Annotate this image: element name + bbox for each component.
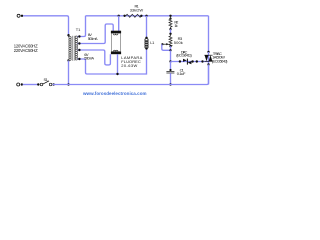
- wire bottom rail left: [23, 84, 39, 86]
- wiper return wire: [162, 44, 171, 50]
- wire bottom rail to triac MT1: [53, 65, 209, 85]
- terminal BOTTOM-LEFT (AC input neutral): [17, 83, 23, 86]
- node diac pin right: [191, 60, 193, 62]
- transformer T1: [69, 35, 78, 61]
- wiper arrow: [162, 43, 166, 45]
- resistor R1 33k/2W (in top rail): [123, 14, 142, 17]
- svg-text:500mA: 500mA: [88, 36, 98, 41]
- node primary bottom pin: [67, 59, 69, 61]
- node junction return/lamp: [116, 73, 118, 75]
- node tap A pin: [78, 35, 80, 37]
- resistor R2 1k: [169, 16, 172, 34]
- node tap D pin: [78, 58, 80, 60]
- node junction rail/R2: [169, 15, 171, 17]
- svg-text:(ECG6411): (ECG6411): [176, 53, 192, 58]
- switch S1: [37, 81, 55, 86]
- svg-text:(ECG5643): (ECG5643): [212, 58, 228, 63]
- wire secondary tap C to lamp bottom-left lead: [78, 50, 111, 65]
- svg-text:220VAC50HZ: 220VAC50HZ: [14, 48, 38, 53]
- svg-text:1k: 1k: [174, 23, 177, 28]
- wire diac line to triac gate: [171, 61, 209, 63]
- svg-text:20-63W: 20-63W: [121, 63, 137, 68]
- svg-text:500k: 500k: [174, 40, 183, 45]
- node triac gate pin: [196, 60, 198, 62]
- node junction primary/bottom-rail: [67, 83, 69, 85]
- node junction rail/lamp-top: [118, 15, 120, 17]
- wire lamp top-right lead to rail: [118, 16, 120, 31]
- fluorescent lamp: [111, 31, 121, 54]
- triac Q1: [204, 51, 212, 85]
- potentiometer R3 500k: [161, 33, 172, 52]
- wire L1 top lead: [146, 16, 148, 38]
- node junction diac-line/C1: [169, 60, 171, 62]
- capacitor C1 0.1uF: [166, 62, 174, 85]
- wire top rail right corner down to triac MT2: [208, 16, 210, 52]
- wire lamp bottom-right lead: [117, 54, 119, 74]
- node junction C1/bottom-rail: [169, 83, 171, 85]
- svg-text:33k/2W: 33k/2W: [130, 7, 144, 12]
- wire top-left rail to transformer primary: [23, 16, 69, 35]
- wire R3 to diac line: [170, 51, 172, 62]
- svg-text:500mA: 500mA: [84, 56, 94, 61]
- node junction rail/L1: [145, 15, 147, 17]
- wire secondary tap B to lamp top-left lead (hop): [78, 24, 114, 44]
- inductor L1: [145, 37, 148, 50]
- wire secondary tap A to riser and top rail: [78, 16, 209, 37]
- svg-text:T1: T1: [76, 27, 81, 32]
- node tap B pin: [78, 42, 80, 44]
- svg-text:S1: S1: [44, 77, 49, 82]
- svg-text:0.1uF: 0.1uF: [177, 71, 186, 76]
- node diac pin left: [179, 60, 181, 62]
- wire primary bottom to bottom rail: [68, 61, 70, 85]
- svg-text:www.forosdeelectronica.com: www.forosdeelectronica.com: [82, 91, 147, 96]
- node primary top pin: [67, 34, 69, 36]
- wire secondary tap D to return line y74.5: [78, 49, 147, 75]
- node tap C pin: [78, 49, 80, 51]
- diac symbol: [183, 59, 191, 65]
- terminal TOP-LEFT (AC input live): [17, 14, 23, 17]
